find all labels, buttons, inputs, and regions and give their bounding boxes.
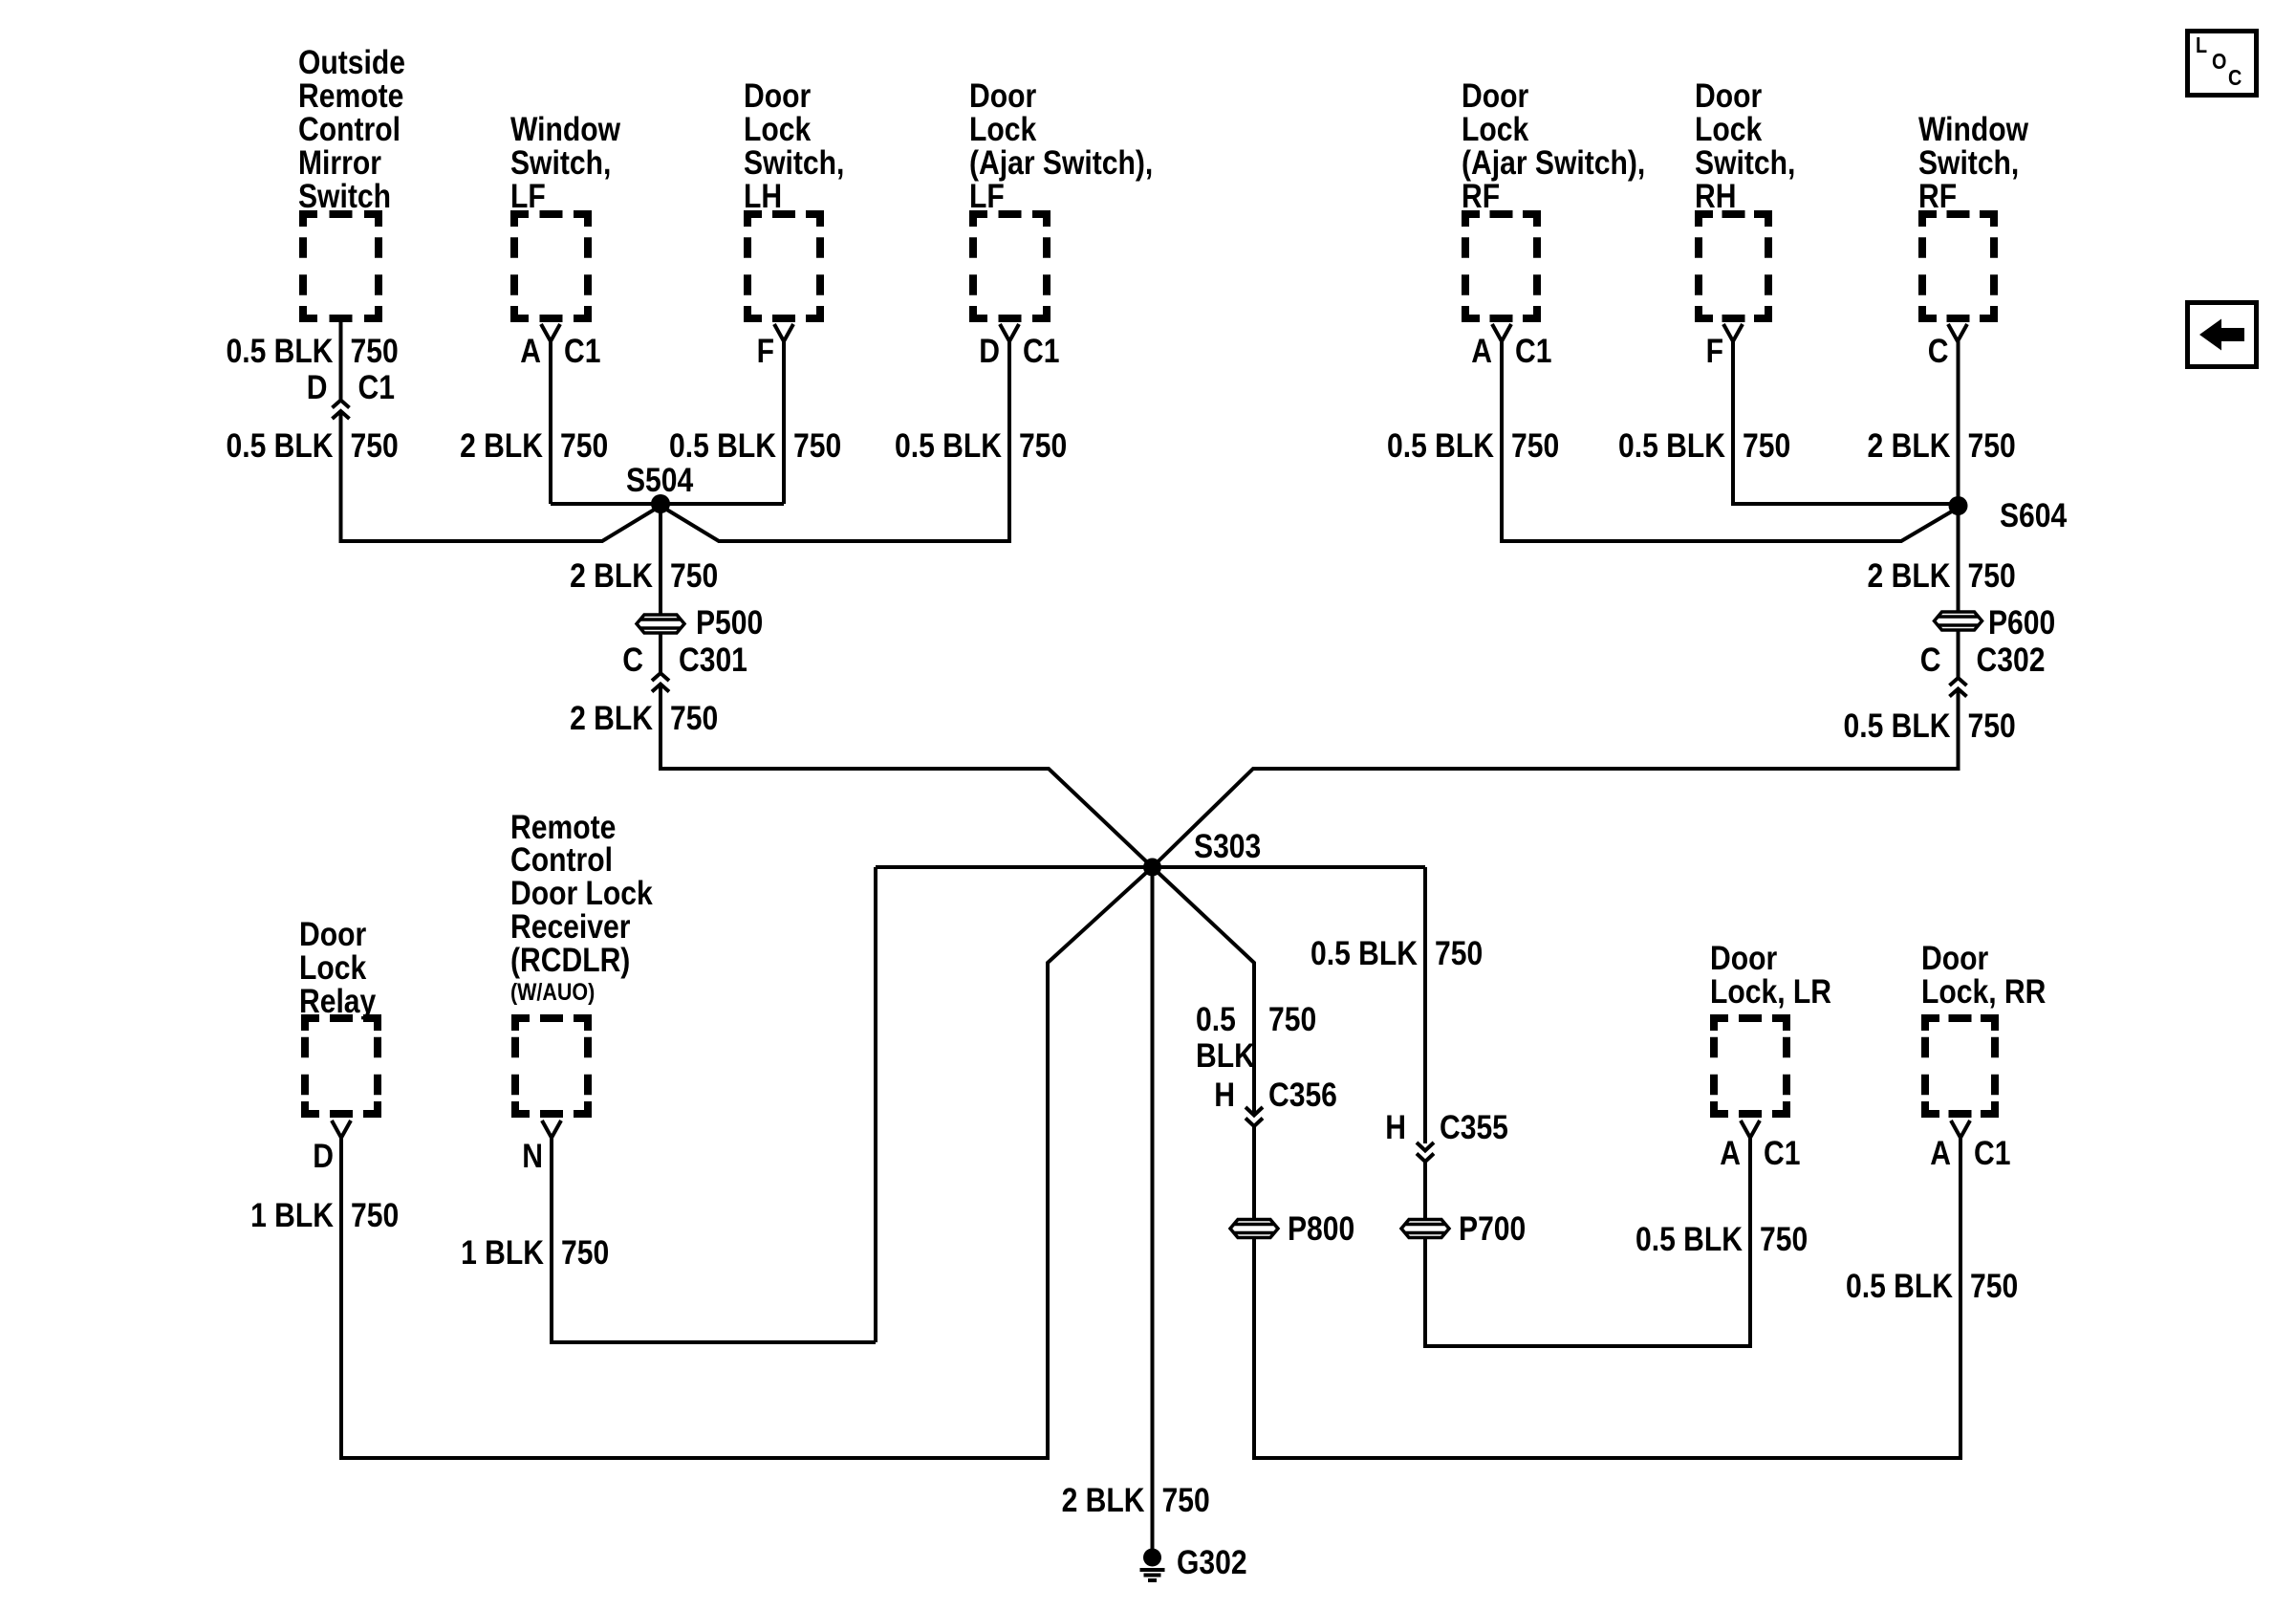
svg-text:Remote: Remote xyxy=(298,76,403,115)
label: Door Lock Switch, LH xyxy=(744,76,844,215)
svg-text:F: F xyxy=(757,332,774,370)
label: (W/AUO) xyxy=(510,978,595,1005)
svg-text:2 BLK: 2 BLK xyxy=(1868,426,1951,465)
connector C302 chevrons (pin C) xyxy=(1950,678,1967,697)
svg-text:750: 750 xyxy=(1967,426,2015,465)
wire: P800 down, right to Door Lock RR xyxy=(1254,1138,1960,1458)
pin label: C (Window Switch RF) xyxy=(1928,332,1949,370)
pin label: C C301 xyxy=(622,641,747,679)
svg-text:750: 750 xyxy=(1967,556,2015,595)
svg-text:Relay: Relay xyxy=(299,982,376,1020)
label: Remote Control Door Lock Receiver (RCDLR) xyxy=(510,808,654,979)
svg-text:A: A xyxy=(520,332,541,370)
connector C1 chevrons on mirror switch wire (D / C1) xyxy=(333,401,350,420)
svg-text:C356: C356 xyxy=(1268,1076,1337,1114)
svg-text:(RCDLR): (RCDLR) xyxy=(510,941,630,979)
svg-text:0.5 BLK: 0.5 BLK xyxy=(1387,426,1494,465)
svg-text:0.5 BLK: 0.5 BLK xyxy=(1846,1267,1953,1305)
svg-text:Switch,: Switch, xyxy=(1918,143,2019,182)
svg-text:Door: Door xyxy=(1921,939,1988,977)
label: 0.5 BLK 750 (Door Lock LR) xyxy=(1635,1220,1808,1258)
svg-text:750: 750 xyxy=(1760,1220,1808,1258)
pin label: A C1 (Door Lock Ajar RF) xyxy=(1471,332,1551,370)
svg-text:0.5 BLK: 0.5 BLK xyxy=(895,426,1002,465)
svg-text:Lock, LR: Lock, LR xyxy=(1710,972,1831,1011)
pin label: A C1 (Door Lock RR) xyxy=(1930,1134,2010,1172)
svg-text:Lock: Lock xyxy=(744,110,812,148)
svg-text:D: D xyxy=(979,332,1000,370)
icon: back-arrow box (right margin) xyxy=(2188,303,2257,367)
label: Door Lock (Ajar Switch), LF xyxy=(969,76,1153,215)
svg-text:Door: Door xyxy=(969,76,1036,115)
pin fork: RCDLR pin N xyxy=(542,1120,561,1138)
svg-text:P700: P700 xyxy=(1459,1209,1526,1248)
svg-text:RF: RF xyxy=(1918,177,1957,215)
svg-text:0.5 BLK: 0.5 BLK xyxy=(1310,934,1418,972)
svg-text:Lock: Lock xyxy=(969,110,1037,148)
svg-text:Control: Control xyxy=(510,840,613,879)
pin label: C C302 xyxy=(1920,641,2046,679)
svg-text:750: 750 xyxy=(793,426,841,465)
label: Window Switch, LF xyxy=(510,110,621,215)
svg-text:(Ajar Switch),: (Ajar Switch), xyxy=(969,143,1153,182)
svg-text:C1: C1 xyxy=(358,368,395,406)
pin fork: Window Switch LF pin A xyxy=(541,324,560,341)
svg-text:D: D xyxy=(313,1137,334,1175)
component box: Door Lock (Ajar Switch) RF xyxy=(1465,214,1537,318)
svg-text:H: H xyxy=(1214,1076,1235,1114)
svg-text:C1: C1 xyxy=(564,332,600,370)
svg-text:Switch,: Switch, xyxy=(1695,143,1795,182)
svg-text:Door: Door xyxy=(1462,76,1528,115)
svg-text:750: 750 xyxy=(1161,1481,1209,1519)
label: 2 BLK 750 (Window RF) xyxy=(1868,426,2016,465)
svg-text:750: 750 xyxy=(1268,1000,1316,1038)
svg-text:LF: LF xyxy=(969,177,1005,215)
label: Door Lock Relay xyxy=(299,915,376,1020)
ground G302 xyxy=(1140,1543,1247,1581)
wire: Door Lock Switch RH pin F to S604 xyxy=(1733,341,1959,504)
wire: C301 down then right toward S303 xyxy=(661,685,1153,867)
svg-text:750: 750 xyxy=(670,699,718,737)
svg-text:0.5 BLK: 0.5 BLK xyxy=(1843,707,1950,745)
svg-text:Control: Control xyxy=(298,110,401,148)
label: 1 BLK 750 (RCDLR) xyxy=(461,1233,609,1272)
svg-text:RH: RH xyxy=(1695,177,1736,215)
svg-text:2 BLK: 2 BLK xyxy=(570,699,653,737)
connector C301 chevrons (pin C) xyxy=(652,673,669,692)
icon: LOC reference box (top right) xyxy=(2188,32,2257,96)
label: 0.5 BLK 750 (mirror, upper) xyxy=(226,332,398,370)
svg-text:D: D xyxy=(307,368,328,406)
svg-text:H: H xyxy=(1385,1108,1406,1146)
svg-text:C: C xyxy=(1928,332,1949,370)
svg-text:BLK: BLK xyxy=(1196,1036,1255,1075)
svg-text:0.5 BLK: 0.5 BLK xyxy=(669,426,776,465)
svg-text:P800: P800 xyxy=(1288,1209,1354,1248)
pin label: F (Door Lock Switch RH) xyxy=(1706,332,1723,370)
label: 0.5 BLK 750 (C302 to S303) xyxy=(1843,707,2015,745)
label: 0.5 BLK 750 (S303 to C355) xyxy=(1310,934,1483,972)
pin fork: Door Lock Ajar RF pin A xyxy=(1492,324,1511,341)
pin label: F (Door Lock Switch LH) xyxy=(757,332,774,370)
svg-text:P500: P500 xyxy=(696,603,763,642)
svg-text:750: 750 xyxy=(1970,1267,2018,1305)
svg-text:C1: C1 xyxy=(1023,332,1059,370)
wire: Window Switch RF pin C through S604 to P600 xyxy=(1957,341,1960,611)
svg-text:750: 750 xyxy=(1019,426,1067,465)
connector P700 grommet xyxy=(1401,1209,1526,1248)
wire: Door Lock Ajar RF pin A to S604 xyxy=(1502,341,1959,541)
pin label: D (relay) xyxy=(313,1137,334,1175)
label: 2 BLK 750 (ground wire) xyxy=(1062,1481,1210,1519)
pin label: H C356 xyxy=(1214,1076,1337,1114)
svg-text:Switch,: Switch, xyxy=(744,143,844,182)
label: 0.5 BLK 750 (Ajar LF) xyxy=(895,426,1067,465)
wire: Door Lock Ajar LF pin D to S504 xyxy=(661,341,1009,541)
label: Door Lock, LR xyxy=(1710,939,1831,1011)
svg-text:(Ajar Switch),: (Ajar Switch), xyxy=(1462,143,1645,182)
pin fork: Door Lock Ajar LF pin D xyxy=(1000,324,1019,341)
svg-text:Door: Door xyxy=(1695,76,1762,115)
svg-text:C1: C1 xyxy=(1764,1134,1800,1172)
svg-text:O: O xyxy=(2212,50,2226,75)
svg-text:Lock: Lock xyxy=(1462,110,1529,148)
svg-text:(W/AUO): (W/AUO) xyxy=(510,978,595,1005)
label: Window Switch, RF xyxy=(1918,110,2029,215)
svg-text:Door: Door xyxy=(1710,939,1777,977)
pin label: N (RCDLR) xyxy=(522,1137,543,1175)
svg-text:Door: Door xyxy=(744,76,811,115)
connector C356 chevrons (pin H) xyxy=(1245,1107,1263,1126)
svg-text:750: 750 xyxy=(561,1233,609,1272)
label: 0.5 BLK 750 (mirror, lower) xyxy=(226,426,398,465)
svg-text:C1: C1 xyxy=(1974,1134,2010,1172)
svg-text:S604: S604 xyxy=(2000,496,2067,534)
splice S303 xyxy=(1143,827,1261,877)
svg-text:2 BLK: 2 BLK xyxy=(460,426,543,465)
splice S504 xyxy=(626,461,693,513)
wire: S303 left arm xyxy=(876,865,1153,869)
wire: S303 right arm down to C355 xyxy=(1423,867,1427,1143)
pin label: A C1 (Door Lock LR) xyxy=(1720,1134,1800,1172)
svg-text:Switch: Switch xyxy=(298,177,391,215)
svg-text:C301: C301 xyxy=(679,641,747,679)
pin fork: Door Lock RR pin A xyxy=(1951,1120,1970,1138)
wire: Door Lock Switch LH pin F to S504 xyxy=(782,341,786,504)
label: 0.5 BLK 750 (Door Lock RH) xyxy=(1618,426,1790,465)
svg-text:Lock: Lock xyxy=(299,948,367,987)
wire: C355 to P700 xyxy=(1423,1162,1427,1218)
wire: P500 to C301 xyxy=(659,634,662,673)
svg-text:Door Lock: Door Lock xyxy=(510,874,654,912)
label: Outside Remote Control Mirror Switch xyxy=(298,43,405,215)
wire: P600 to C302 xyxy=(1957,631,1960,678)
svg-text:P600: P600 xyxy=(1988,603,2055,642)
svg-text:C1: C1 xyxy=(1515,332,1551,370)
splice S604 xyxy=(1949,496,2068,534)
component box: Door Lock Switch LH xyxy=(747,214,820,318)
svg-text:Switch,: Switch, xyxy=(510,143,611,182)
label: Door Lock, RR xyxy=(1921,939,2046,1011)
svg-text:Receiver: Receiver xyxy=(510,907,631,946)
svg-text:0.5 BLK: 0.5 BLK xyxy=(226,426,333,465)
svg-text:2 BLK: 2 BLK xyxy=(570,556,653,595)
label: 2 BLK 750 (Window LF) xyxy=(460,426,608,465)
svg-text:C355: C355 xyxy=(1440,1108,1508,1146)
wire: mirror switch lower segment to S504 xyxy=(341,411,661,541)
component box: Door Lock LR xyxy=(1714,1018,1787,1114)
pin label: H C355 xyxy=(1385,1108,1508,1146)
component box: Window Switch LF xyxy=(514,214,588,318)
wire: Window Switch LF pin A to S504 xyxy=(549,341,552,504)
wire: RCDLR pin N to S303 xyxy=(552,1138,876,1342)
svg-text:A: A xyxy=(1720,1134,1741,1172)
label: 1 BLK 750 (relay) xyxy=(250,1196,399,1234)
svg-text:750: 750 xyxy=(350,332,398,370)
pin fork: Window Switch RF pin C xyxy=(1948,324,1967,341)
svg-text:RF: RF xyxy=(1462,177,1500,215)
pin label: D C1 (mirror switch) xyxy=(307,368,395,406)
svg-text:2 BLK: 2 BLK xyxy=(1868,556,1951,595)
wire: S504 horizontal bus xyxy=(551,502,784,506)
label: 2 BLK 750 (S604 to P600) xyxy=(1868,556,2016,595)
wire: C356 to P800 xyxy=(1252,1126,1256,1218)
wire: S303 right arm xyxy=(1153,865,1426,869)
component box: Door Lock Switch RH xyxy=(1699,214,1768,318)
connector P800 grommet xyxy=(1230,1209,1354,1248)
label: 0.5 BLK 750 (Door Lock RR) xyxy=(1846,1267,2018,1305)
svg-text:S504: S504 xyxy=(626,461,693,499)
svg-text:S303: S303 xyxy=(1194,827,1261,865)
svg-text:F: F xyxy=(1706,332,1723,370)
svg-text:Lock: Lock xyxy=(1695,110,1763,148)
svg-text:750: 750 xyxy=(350,426,398,465)
component box: Door Lock (Ajar Switch) LF xyxy=(973,214,1047,318)
wire: C302 down then left toward S303 xyxy=(1153,689,1959,867)
component box: Window Switch RF xyxy=(1922,214,1994,318)
svg-text:750: 750 xyxy=(1511,426,1559,465)
svg-text:0.5 BLK: 0.5 BLK xyxy=(226,332,333,370)
component box: Door Lock RR xyxy=(1925,1018,1995,1114)
svg-text:0.5 BLK: 0.5 BLK xyxy=(1618,426,1725,465)
svg-text:Outside: Outside xyxy=(298,43,405,81)
pin fork: Door Lock Switch LH pin F xyxy=(774,324,793,341)
svg-text:750: 750 xyxy=(560,426,608,465)
pin fork: Door Lock LR pin A xyxy=(1741,1120,1760,1138)
pin label: D C1 (Door Lock Ajar LF) xyxy=(979,332,1059,370)
component box: Door Lock Relay xyxy=(305,1018,378,1114)
wire: Door Lock Relay pin D to S303 xyxy=(341,867,1153,1458)
svg-text:750: 750 xyxy=(1743,426,1790,465)
connector P500 grommet xyxy=(637,603,763,642)
svg-text:2 BLK: 2 BLK xyxy=(1062,1481,1145,1519)
connector C355 chevrons (pin H) xyxy=(1417,1142,1434,1162)
svg-text:750: 750 xyxy=(1967,707,2015,745)
svg-text:C302: C302 xyxy=(1977,641,2046,679)
svg-text:1 BLK: 1 BLK xyxy=(461,1233,544,1272)
svg-text:750: 750 xyxy=(670,556,718,595)
svg-text:750: 750 xyxy=(1435,934,1483,972)
label: 0.5 BLK / 750 (S303 to C356, stacked) xyxy=(1196,1000,1316,1075)
svg-text:C: C xyxy=(2228,66,2242,91)
wire: S303 down to ground G302 xyxy=(1151,867,1155,1550)
svg-text:Door: Door xyxy=(299,915,366,953)
svg-text:L: L xyxy=(2196,33,2207,58)
pin fork: Door Lock Relay pin D xyxy=(332,1120,351,1138)
svg-text:Window: Window xyxy=(1918,110,2029,148)
pin fork: Door Lock Switch RH pin F xyxy=(1723,324,1743,341)
wire: S504 down to P500 xyxy=(659,504,662,614)
wire: P700 down, right to Door Lock LR xyxy=(1425,1138,1750,1346)
svg-text:LH: LH xyxy=(744,177,782,215)
svg-text:Mirror: Mirror xyxy=(298,143,381,182)
label: 2 BLK 750 (S504 to P500) xyxy=(570,556,718,595)
svg-text:750: 750 xyxy=(351,1196,399,1234)
connector P600 grommet xyxy=(1935,603,2056,642)
svg-text:1 BLK: 1 BLK xyxy=(250,1196,334,1234)
label: 0.5 BLK 750 (Door Lock LH) xyxy=(669,426,841,465)
pin label: A C1 (Window Switch LF) xyxy=(520,332,600,370)
svg-text:A: A xyxy=(1930,1134,1951,1172)
svg-text:0.5 BLK: 0.5 BLK xyxy=(1635,1220,1743,1258)
label: Door Lock (Ajar Switch), RF xyxy=(1462,76,1645,215)
svg-text:LF: LF xyxy=(510,177,546,215)
wire: S303 diagonal to C356 branch xyxy=(1153,867,1255,1113)
component box: RCDLR xyxy=(515,1018,588,1114)
svg-text:C: C xyxy=(1920,641,1941,679)
wire: left arm down leg xyxy=(874,867,877,1342)
svg-text:A: A xyxy=(1471,332,1492,370)
component box: Outside Remote Control Mirror Switch xyxy=(303,214,379,318)
svg-text:Window: Window xyxy=(510,110,621,148)
svg-text:0.5: 0.5 xyxy=(1196,1000,1236,1038)
svg-text:C: C xyxy=(622,641,643,679)
svg-text:N: N xyxy=(522,1137,543,1175)
label: 0.5 BLK 750 (Ajar RF) xyxy=(1387,426,1559,465)
svg-text:Lock, RR: Lock, RR xyxy=(1921,972,2046,1011)
svg-text:G302: G302 xyxy=(1177,1543,1247,1581)
wire: mirror switch pin D upper segment xyxy=(339,318,343,400)
label: 2 BLK 750 (C301 to S303) xyxy=(570,699,718,737)
label: Door Lock Switch, RH xyxy=(1695,76,1795,215)
